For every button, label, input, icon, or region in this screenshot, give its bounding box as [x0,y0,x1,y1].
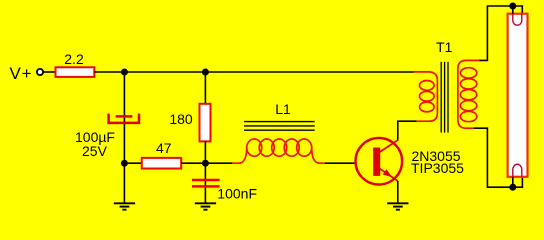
svg-text:100nF: 100nF [217,186,257,202]
wire collector [398,121,417,140]
resistor 2.2 [56,51,95,77]
resistor 47 [142,140,181,168]
svg-text:2.2: 2.2 [64,51,84,67]
ground 3 [387,203,408,209]
node B junction [202,160,209,167]
wire to ground [123,163,125,202]
inductor L1 [232,101,325,163]
T1 core [441,62,448,133]
wire filament top left leg to node [512,6,514,14]
wire filament bottom left leg to node [512,177,514,187]
wire 180 branch bottom [204,141,206,163]
ground 2 [195,203,216,209]
svg-text:T1: T1 [436,39,453,55]
node tube top junction [509,3,516,10]
terminal V+ [37,69,43,75]
wire cap branch [123,72,125,163]
node A junction [121,69,128,76]
fluorescent tube [508,6,528,187]
transformer T1 [414,39,481,133]
svg-text:TIP3055: TIP3055 [411,160,464,176]
node tube bottom junction [509,184,516,191]
wire secondary bottom to tube [474,128,522,187]
wire 180 branch top [204,72,206,104]
wire base [325,162,356,164]
wire 100nF branch [204,163,206,202]
wire secondary top to tube [480,6,523,60]
node rail-180 junction [202,69,209,76]
svg-text:47: 47 [156,140,172,156]
transistor Q1 [356,138,465,185]
wire [43,71,56,73]
tube filament top [513,14,522,26]
T1 primary winding [414,72,438,121]
wire node B to L1 [205,162,233,164]
tube filament bottom [513,164,522,177]
T1 secondary winding [458,60,481,128]
capacitor C2 100nF [192,180,257,202]
svg-text:V+: V+ [10,64,33,83]
wire emitter [397,181,399,203]
svg-text:L1: L1 [275,101,291,117]
ground 1 [114,203,135,209]
node cap-bottom junction [121,160,128,167]
resistor 180 [169,104,210,142]
svg-text:180: 180 [169,111,193,127]
capacitor C1 100uF [75,114,139,159]
wire main rail [94,71,414,73]
wire [181,162,205,164]
svg-text:25V: 25V [82,143,108,159]
wire [124,162,141,164]
